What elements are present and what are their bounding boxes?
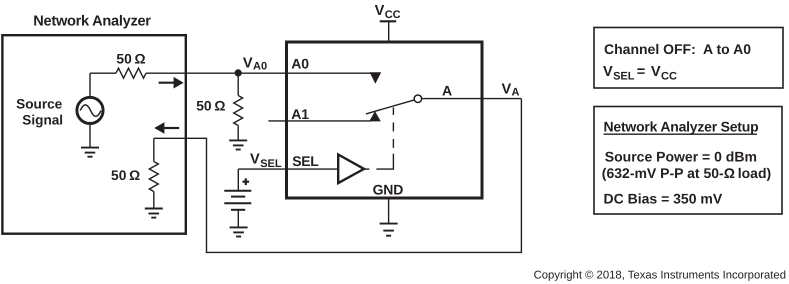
wire: A1 stub — [268, 120, 371, 122]
wire: main line source to resistor R1 — [90, 72, 116, 74]
svg-text:SEL: SEL — [260, 158, 282, 170]
resistor R3 50 ohm (vertical) — [149, 162, 158, 192]
mux/switch box U1 — [287, 42, 483, 198]
wire: SEL source corner down to battery — [237, 169, 239, 191]
note box: channel state — [594, 28, 783, 89]
svg-text:Signal: Signal — [22, 113, 63, 128]
svg-text:(632-mV P-P at 50-Ω load): (632-mV P-P at 50-Ω load) — [602, 165, 771, 181]
svg-text:V: V — [502, 81, 512, 97]
label: V_A — [502, 81, 520, 98]
svg-text:=: = — [637, 64, 646, 80]
ground (source) — [81, 148, 99, 157]
svg-text:Source: Source — [16, 97, 63, 112]
switch arm — [366, 100, 414, 114]
svg-text:50 Ω: 50 Ω — [116, 51, 145, 66]
svg-text:A0: A0 — [291, 56, 309, 72]
svg-text:Copyright © 2018, Texas Instru: Copyright © 2018, Texas Instruments Inco… — [534, 270, 786, 282]
arrow: reflected signal (left) — [154, 122, 179, 134]
wire: loop corner down to resistor R3 — [153, 138, 155, 161]
wire: R2 to ground — [237, 126, 239, 141]
switch pole (open circle) — [414, 95, 422, 103]
svg-text:A: A — [512, 87, 520, 99]
wire: battery to ground — [237, 210, 239, 228]
wire: source top to main line — [89, 73, 91, 97]
svg-text:A: A — [442, 83, 452, 99]
svg-text:V: V — [651, 64, 661, 80]
network analyzer box — [2, 35, 185, 234]
svg-text:DC Bias = 350 mV: DC Bias = 350 mV — [604, 191, 723, 207]
wire: node to resistor R2 — [237, 73, 239, 96]
battery BT1 plus sign — [243, 178, 250, 185]
svg-text:A1: A1 — [291, 106, 309, 122]
battery BT1 plates — [224, 191, 251, 210]
source V1 (sine source) — [77, 97, 103, 123]
svg-text:SEL: SEL — [613, 71, 635, 83]
svg-text:CC: CC — [385, 9, 401, 21]
label: V_SEL — [250, 152, 282, 171]
label: Source Signal — [16, 97, 63, 128]
svg-text:A0: A0 — [253, 61, 267, 73]
dashed control line — [364, 107, 393, 169]
wire: battery to SEL buffer — [238, 168, 338, 170]
svg-text:Network Analyzer Setup: Network Analyzer Setup — [604, 119, 759, 135]
svg-text:50 Ω: 50 Ω — [111, 168, 140, 183]
contact A1 (filled triangle up) — [369, 111, 381, 121]
ground (R2) — [229, 140, 247, 149]
svg-text:CC: CC — [661, 71, 677, 83]
wire: R3 to ground — [153, 192, 155, 209]
VCC supply bar — [380, 20, 396, 22]
ground (GND pin) — [380, 224, 398, 236]
svg-text:Source Power = 0 dBm: Source Power = 0 dBm — [605, 148, 757, 164]
contact A0 (filled triangle down) — [370, 72, 382, 84]
svg-text:V: V — [603, 64, 613, 80]
node VA0 (junction dot) — [235, 69, 242, 76]
label: V_A0 — [243, 55, 267, 72]
svg-text:Channel OFF: A to A0: Channel OFF: A to A0 — [604, 41, 751, 57]
svg-text:V: V — [243, 55, 253, 71]
resistor R1 50 ohm (horizontal) — [116, 68, 146, 78]
note box: analyzer setup — [594, 107, 782, 215]
label: V_CC — [375, 3, 401, 21]
svg-text:SEL: SEL — [292, 153, 319, 169]
wire: R1 to A0 contact through node — [146, 72, 371, 74]
arrow: incident signal (right) — [159, 77, 184, 89]
note text: VSEL = VCC — [603, 64, 677, 82]
buffer U2 (triangle) — [338, 155, 364, 184]
svg-text:V: V — [375, 3, 385, 19]
wire: pole A to VA — [422, 98, 521, 100]
note text: Network Analyzer Setup (underlined) — [604, 119, 759, 135]
svg-text:V: V — [250, 152, 260, 168]
svg-text:GND: GND — [373, 181, 404, 197]
wire: source bottom to ground — [89, 124, 91, 148]
resistor R2 50 ohm (vertical) — [234, 96, 243, 126]
wire: GND pin — [388, 200, 390, 224]
wire: VCC to box — [388, 21, 390, 42]
svg-text:50 Ω: 50 Ω — [196, 99, 225, 114]
ground (battery) — [230, 227, 248, 236]
ground (R3) — [145, 209, 163, 218]
svg-text:Network Analyzer: Network Analyzer — [33, 13, 151, 29]
wire: return loop from VA down and back to R3 — [154, 99, 522, 253]
